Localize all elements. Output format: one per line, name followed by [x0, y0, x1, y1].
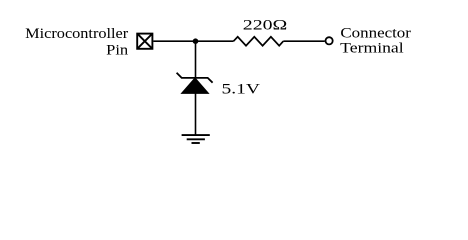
ground symbol: top bar	[182, 134, 210, 136]
wire: zener anode to ground	[195, 93, 197, 135]
wire: junction down to zener cathode	[195, 41, 197, 78]
wire: junction to resistor	[196, 40, 234, 42]
svg-text:Pin: Pin	[106, 43, 129, 59]
svg-text:5.1V: 5.1V	[222, 82, 261, 98]
resistor R1 220Ω (zigzag)	[234, 37, 284, 46]
pin symbol: crossed square (microcontroller pin)	[137, 34, 152, 49]
svg-text:Terminal: Terminal	[340, 41, 404, 57]
terminal: open circle (connector terminal)	[326, 37, 333, 44]
zener diode D1: cathode bar with bent ends	[177, 73, 213, 83]
svg-text:Connector: Connector	[340, 26, 411, 42]
junction node (dot)	[193, 38, 199, 44]
wire: pin to junction	[153, 40, 195, 42]
wire: resistor to connector terminal	[283, 40, 325, 42]
ground symbol: bottom bar	[192, 142, 200, 144]
zener diode D1: anode triangle (filled, apex up)	[182, 78, 209, 94]
svg-text:Microcontroller: Microcontroller	[25, 26, 128, 42]
ground symbol: middle bar	[187, 138, 205, 140]
svg-text:220Ω: 220Ω	[243, 18, 287, 34]
